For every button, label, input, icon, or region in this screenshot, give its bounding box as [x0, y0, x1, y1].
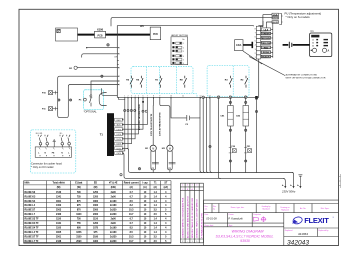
revision strip frame — [180, 183, 203, 243]
svg-text:El.batt: El.batt — [75, 182, 82, 185]
svg-text:10.3: 10.3 — [129, 210, 134, 212]
capacitor block C82 — [243, 106, 249, 127]
revision numbers — [182, 185, 197, 191]
svg-text:Total effekt: Total effekt — [53, 182, 65, 185]
svg-text:2: 2 — [182, 185, 183, 187]
svg-text:1250: 1250 — [93, 192, 99, 194]
relay R4 — [140, 76, 143, 88]
sensor wire 2 — [82, 54, 118, 57]
svg-text:S3,K3,S4,L4,S7,L7 NORDIC MOD: S3,K3,S4,L4,S7,L7 NORDIC MODEL — [216, 234, 274, 238]
A1 bottom edge pin circles — [202, 96, 247, 98]
svg-text:230V: 230V — [116, 153, 121, 155]
svg-text:1540: 1540 — [56, 191, 62, 194]
tap arrows — [122, 119, 124, 154]
svg-text:15: 15 — [312, 40, 314, 42]
svg-text:1075: 1075 — [93, 227, 99, 229]
fan motor M2 — [167, 145, 173, 151]
svg-text:WITH OR WITHOUT EDA CONNECTOR: WITH OR WITHOUT EDA CONNECTOR — [286, 77, 326, 80]
svg-text:93930: 93930 — [240, 239, 250, 243]
svg-text:3150: 3150 — [76, 236, 82, 238]
drawing title — [216, 230, 274, 244]
svg-text:WHITE: WHITE — [272, 18, 279, 20]
svg-text:110V: 110V — [116, 139, 121, 141]
svg-text:CHANGED WIRE NO. 690/712/40 AN: CHANGED WIRE NO. 690/712/40 AND PCB — [182, 197, 185, 238]
svg-text:2x160: 2x160 — [110, 232, 117, 234]
svg-text:ant.: ant. — [205, 207, 208, 210]
svg-text:1805: 1805 — [56, 232, 62, 234]
svg-text:X100: X100 — [97, 28, 104, 32]
svg-text:2x90: 2x90 — [111, 192, 117, 194]
bus1 down to L terminal — [293, 173, 294, 187]
run capacitor C1 — [152, 163, 158, 164]
svg-text:1800: 1800 — [93, 201, 99, 203]
svg-text:10.3: 10.3 — [129, 236, 134, 238]
svg-text:1341: 1341 — [56, 222, 62, 225]
svg-text:2460: 2460 — [56, 213, 62, 216]
svg-text:2500: 2500 — [93, 210, 99, 212]
junction — [70, 99, 72, 101]
wire T1 115V tap to bus1 — [127, 148, 293, 172]
relay R8 — [184, 76, 187, 88]
svg-text:3: 3 — [192, 185, 193, 187]
control board A1 — [117, 26, 258, 98]
svg-text:(W): (W) — [94, 187, 98, 189]
svg-text:RL60E S7 TF: RL60E S7 TF — [25, 236, 40, 238]
junction — [229, 101, 231, 103]
svg-text:2090: 2090 — [76, 241, 82, 243]
wire B1 to A1 — [77, 67, 117, 69]
wires pins 12,13 to bus — [200, 118, 202, 173]
svg-text:1200: 1200 — [93, 223, 99, 225]
svg-text:342043: 342043 — [287, 239, 309, 246]
terminal circles — [38, 135, 70, 147]
svg-text:Drawing no: Drawing no — [280, 207, 289, 209]
C1 knob A — [322, 48, 326, 52]
svg-text:1900: 1900 — [93, 241, 99, 243]
svg-text:3: 3 — [196, 185, 197, 187]
wire PU blue — [260, 22, 272, 31]
svg-text:RL60E S7: RL60E S7 — [25, 210, 36, 212]
A1 left edge pin arrows — [117, 47, 119, 85]
thermostat F11 — [49, 107, 53, 111]
svg-text:EDA: EDA — [236, 44, 241, 47]
junction — [209, 145, 211, 147]
PU connector bracket — [279, 14, 282, 25]
sensor B1 — [74, 66, 77, 69]
svg-text:1801: 1801 — [56, 201, 62, 203]
svg-text:NL L/N1: NL L/N1 — [36, 133, 43, 135]
relay R5 — [130, 76, 133, 88]
svg-text:Name, type, dim.: Name, type, dim. — [231, 206, 245, 209]
svg-text:30: 30 — [312, 43, 314, 45]
junction — [101, 75, 103, 77]
svg-text:#T & #E: #T & #E — [109, 183, 118, 185]
pin strip wire colour labels — [261, 28, 270, 58]
svg-text:2000: 2000 — [93, 214, 99, 216]
svg-text:RL60E L7: RL60E L7 — [25, 214, 36, 216]
junction node — [107, 44, 109, 46]
svg-text:FLEXIT: FLEXIT — [304, 216, 329, 225]
svg-text:115V: 115V — [116, 148, 121, 150]
svg-text:2503: 2503 — [56, 210, 62, 212]
svg-text:RL60E L7 TF: RL60E L7 TF — [25, 241, 40, 243]
EDA module — [235, 40, 243, 51]
junction — [120, 174, 122, 176]
svg-text:ED: ED — [94, 183, 98, 185]
junction — [245, 129, 247, 131]
svg-text:(kW): (kW) — [111, 187, 116, 189]
svg-text:60: 60 — [312, 46, 314, 48]
svg-text:1900: 1900 — [76, 214, 82, 216]
thick cable to C1 — [283, 44, 310, 46]
A1 right pin strip — [256, 26, 260, 59]
title block frame — [204, 200, 339, 245]
controller C1 — [310, 33, 332, 57]
svg-text:BLUE: BLUE — [272, 22, 278, 24]
pin numbers — [255, 28, 257, 59]
svg-text:WIRING DIAGRAM: WIRING DIAGRAM — [232, 230, 265, 234]
svg-text:2x90: 2x90 — [111, 196, 117, 198]
heater feed wire right — [256, 97, 258, 172]
relay R2 — [245, 76, 248, 88]
title block header labels — [205, 206, 330, 232]
svg-text:1656: 1656 — [76, 232, 82, 234]
svg-text:1600: 1600 — [93, 205, 99, 207]
svg-text:1200: 1200 — [93, 196, 99, 198]
svg-text:5: 5 — [196, 241, 197, 243]
optional pressure guard box (dashed) — [84, 90, 104, 110]
svg-text:I cap: I cap — [142, 183, 148, 185]
svg-text:1341: 1341 — [56, 195, 62, 198]
svg-text:(W): (W) — [57, 187, 61, 189]
svg-text:N L: N L — [60, 133, 63, 135]
PU wire label BLUE — [272, 21, 279, 24]
svg-text:PCB: PCB — [153, 34, 158, 36]
junction row below A1 — [124, 109, 148, 112]
svg-text:1150: 1150 — [93, 219, 99, 221]
annotation leader lines — [243, 51, 285, 76]
capacitor block C81 — [228, 106, 234, 127]
label link wires — [271, 23, 273, 58]
PE earth symbol — [53, 139, 56, 147]
svg-text:3190: 3190 — [93, 236, 99, 238]
svg-text:Mat. Spec.: Mat. Spec. — [321, 207, 330, 210]
svg-text:2x330: 2x330 — [110, 214, 117, 216]
svg-text:2x330: 2x330 — [110, 210, 117, 212]
svg-text:10.7: 10.7 — [129, 241, 134, 243]
svg-text:RL60E K3: RL60E K3 — [25, 196, 36, 198]
svg-text:2x160: 2x160 — [110, 227, 117, 229]
junction — [229, 129, 231, 131]
svg-text:Resp. dept: Resp. dept — [205, 224, 214, 227]
T1 tap labels — [115, 118, 123, 155]
svg-text:BROWN: BROWN — [262, 38, 271, 40]
svg-text:KUN VED VANNBATTERI: KUN VED VANNBATTERI — [138, 104, 141, 130]
svg-text:kWh: kWh — [25, 183, 30, 185]
EDA thick lead — [243, 42, 252, 48]
mains supply box — [56, 28, 78, 41]
svg-text:2448: 2448 — [56, 240, 62, 243]
svg-text:2x90: 2x90 — [111, 219, 117, 221]
pressure guard P1 — [90, 81, 118, 106]
svg-text:341864: 341864 — [298, 232, 308, 236]
wire loop beside P1 — [99, 93, 106, 106]
svg-text:2x160: 2x160 — [110, 205, 117, 207]
wire pin 14 to bus2 — [219, 97, 221, 178]
svg-text:3: 3 — [187, 185, 188, 187]
svg-text:NEW REV TABLE 03-02-12 CHANGED: NEW REV TABLE 03-02-12 CHANGED DIM — [191, 198, 194, 238]
svg-text:(A): (A) — [154, 186, 157, 189]
svg-text:1: 1 — [192, 241, 193, 243]
heater leg C82 — [245, 97, 247, 172]
svg-text:4: 4 — [183, 56, 184, 58]
junction — [138, 168, 140, 170]
revision description texts (vertical) — [182, 195, 199, 238]
svg-text:2x330: 2x330 — [110, 236, 117, 238]
thick supply wire — [78, 34, 95, 36]
PCB power unit — [150, 27, 161, 40]
relay R1 — [159, 76, 162, 88]
svg-text:2501: 2501 — [56, 236, 62, 238]
junction pin square — [142, 101, 144, 103]
svg-text:BLK: BLK — [117, 125, 121, 127]
optional relay zone left (dashed) — [131, 66, 249, 97]
svg-text:RL60E K3 TF: RL60E K3 TF — [25, 223, 40, 225]
svg-text:C1: C1 — [310, 29, 314, 33]
svg-text:120V: 120V — [116, 134, 121, 136]
svg-text:GREEN: GREEN — [262, 34, 270, 36]
svg-text:RL60E S3: RL60E S3 — [25, 192, 36, 194]
sensor stub wire — [86, 47, 87, 48]
mains box icon — [57, 29, 60, 32]
fan motor M1 — [150, 145, 156, 151]
PU wire label LILA — [272, 13, 279, 16]
svg-text:M: M — [169, 147, 171, 150]
svg-text:11: 11 — [182, 95, 184, 97]
svg-text:2x160: 2x160 — [110, 201, 117, 203]
svg-text:(W): (W) — [77, 187, 81, 189]
A1 bottom pin ticks — [125, 97, 210, 98]
wire A1 to PU (top run) — [111, 17, 272, 26]
wire to fan M1 — [152, 97, 154, 145]
svg-text:A1: A1 — [140, 24, 144, 28]
wires A1 to transformer taps — [119, 97, 147, 151]
svg-text:Replaced: Replaced — [281, 210, 289, 212]
svg-text:Replaced: Replaced — [285, 230, 293, 232]
svg-text:RED: RED — [264, 47, 269, 49]
svg-text:P. Kowalczik: P. Kowalczik — [228, 216, 243, 220]
capacitor C3 loop — [171, 97, 200, 120]
svg-text:2x90: 2x90 — [111, 223, 117, 225]
svg-text:M: M — [152, 147, 154, 150]
svg-text:BLACK: BLACK — [262, 56, 270, 59]
thermostat F10 — [49, 91, 53, 95]
cable plug symbol — [289, 42, 292, 48]
junction — [255, 110, 257, 112]
junction — [245, 160, 247, 162]
svg-text:RED: RED — [117, 120, 122, 122]
cooker hood option box (dashed) — [30, 130, 76, 173]
A1 corner black pin — [255, 96, 258, 99]
thick supply wire to PCB unit — [106, 34, 151, 36]
svg-text:* Only on S-models: * Only on S-models — [286, 15, 311, 19]
fold marks right border — [339, 174, 341, 188]
N arrow terminal — [284, 186, 286, 188]
C1 knob O — [312, 48, 316, 52]
bus2 down to N terminal — [284, 178, 286, 186]
svg-text:RL60E L4: RL60E L4 — [25, 204, 36, 207]
svg-text:6: 6 — [183, 63, 184, 65]
PE terminal — [299, 175, 302, 187]
PU wire label WHITE — [272, 16, 279, 19]
svg-text:(A): (A) — [130, 186, 133, 189]
svg-text:LILA: LILA — [264, 28, 269, 31]
svg-text:(uF): (uF) — [164, 187, 169, 189]
svg-text:Rated current: Rated current — [124, 182, 139, 185]
A1 bottom pin numbers — [124, 95, 246, 97]
svg-text:130V: 130V — [116, 129, 121, 131]
M1 channel wires — [151, 151, 156, 173]
svg-text:2: 2 — [183, 47, 184, 49]
relay R3 — [229, 76, 232, 88]
svg-text:1302: 1302 — [56, 205, 62, 207]
svg-text:A: A — [328, 50, 330, 53]
junction — [245, 101, 247, 103]
cooker hood terminal strip — [35, 147, 71, 157]
run capacitor C2 — [169, 163, 175, 164]
svg-text:Date: Date — [205, 213, 209, 216]
svg-text:RL60E S4: RL60E S4 — [25, 200, 36, 203]
transformer T1 — [107, 113, 114, 156]
wire A1 lower left — [102, 89, 125, 100]
svg-text:Standard: Standard — [262, 207, 269, 210]
svg-text:1100: 1100 — [56, 227, 62, 229]
revision strip bottom cells — [182, 241, 197, 243]
svg-text:Art. No.: Art. No. — [300, 207, 307, 210]
svg-text:RL60E L4 TF: RL60E L4 TF — [25, 231, 40, 234]
wire loop F10/F11 — [58, 76, 118, 117]
svg-text:3: 3 — [183, 51, 184, 53]
wire PU lila — [260, 15, 272, 27]
junction — [229, 160, 231, 162]
svg-text:On: On — [182, 39, 185, 41]
svg-text:ALTERNATIVE CONNECTIONS: ALTERNATIVE CONNECTIONS — [286, 74, 318, 77]
tick marks inside strip — [39, 147, 70, 149]
svg-text:LILA: LILA — [273, 13, 278, 16]
svg-text:2x330: 2x330 — [110, 241, 117, 243]
svg-text:* Only on K3 model: * Only on K3 model — [31, 165, 54, 169]
svg-text:230V TILLUFTSVIFTE: 230V TILLUFTSVIFTE — [151, 113, 153, 136]
svg-text:230V AVTREKKSVIFTE: 230V AVTREKKSVIFTE — [159, 112, 162, 136]
optional relay zone right (dashed) — [207, 66, 249, 97]
svg-text:Drawn: Drawn — [229, 214, 234, 216]
wire T1 230V tap to bus — [123, 153, 284, 178]
svg-text:P. KOWALCZIK 03-02-12 P.K: P. KOWALCZIK 03-02-12 P.K — [200, 212, 203, 238]
svg-text:RL60E S3 TF: RL60E S3 TF — [25, 219, 40, 221]
svg-text:1150: 1150 — [56, 219, 62, 221]
svg-text:YELLOW: YELLOW — [261, 43, 270, 45]
svg-text:230V 50Hz: 230V 50Hz — [281, 190, 296, 194]
svg-text:5: 5 — [183, 59, 184, 61]
svg-text:03-01-08: 03-01-08 — [206, 216, 217, 220]
connector X100 — [95, 31, 106, 38]
wire to fan M2 — [160, 97, 170, 145]
svg-text:100V: 100V — [116, 144, 121, 146]
svg-text:by: by — [213, 208, 215, 210]
projection symbol — [254, 217, 267, 222]
svg-text:Projection: Projection — [253, 213, 261, 216]
svg-text:1: 1 — [183, 43, 184, 45]
junction — [58, 99, 60, 101]
model data table — [24, 181, 171, 244]
vertical label wire colours — [138, 104, 162, 136]
strip top link wire — [258, 21, 263, 26]
svg-text:10.7: 10.7 — [129, 214, 134, 216]
svg-text:CHANGED TRAFO T1 100V TAP WIRE: CHANGED TRAFO T1 100V TAP WIRE 03 — [196, 199, 199, 238]
svg-text:*OPTIONAL: *OPTIONAL — [84, 110, 98, 113]
svg-text:Replaced by: Replaced by — [318, 230, 328, 232]
svg-text:ROSA: ROSA — [263, 51, 270, 54]
svg-text:(A): (A) — [143, 186, 146, 189]
svg-text:RL60E S4 TF: RL60E S4 TF — [25, 226, 40, 229]
L arrow terminal — [292, 186, 294, 188]
svg-text:Sign: Sign — [229, 225, 233, 227]
svg-text:PCB: PCB — [97, 34, 102, 37]
M2 channel wires — [168, 151, 173, 173]
switch blades — [39, 138, 69, 143]
heater leg C81 — [229, 97, 231, 172]
FLEXIT logo swoosh — [292, 216, 303, 225]
DIP switch block — [171, 37, 188, 65]
svg-text:ADDED K3 UNIT AND NEW PCB LAYO: ADDED K3 UNIT AND NEW PCB LAYOUT 03 — [186, 195, 189, 238]
